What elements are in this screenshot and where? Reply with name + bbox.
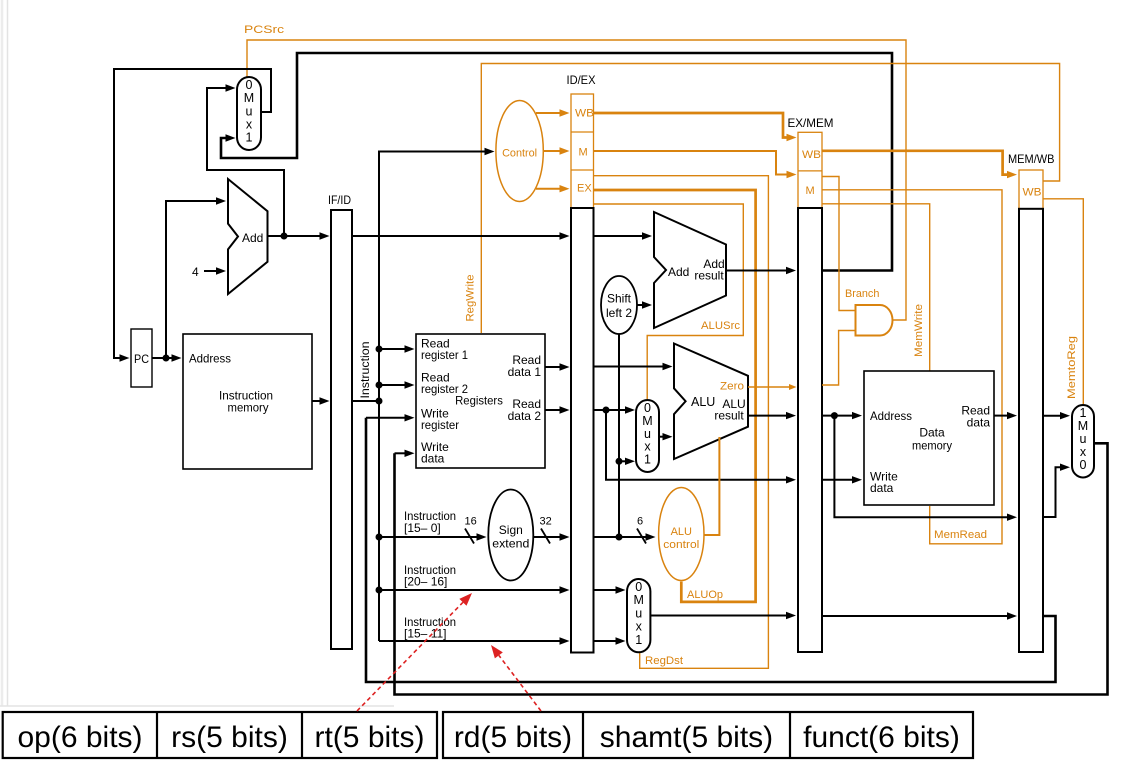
svg-text:u: u [246,104,253,118]
svg-text:memory: memory [912,439,952,453]
svg-text:rs(5 bits): rs(5 bits) [171,721,288,754]
svg-text:PC: PC [134,352,149,366]
svg-text:WB: WB [575,108,594,120]
svg-text:Instruction: Instruction [358,342,372,399]
svg-text:Address: Address [870,409,912,423]
svg-text:M: M [579,147,588,159]
svg-text:register: register [421,418,459,432]
svg-text:M: M [806,185,815,197]
svg-text:Data: Data [919,426,945,440]
svg-text:Add: Add [668,265,689,279]
svg-text:ID/EX: ID/EX [567,73,596,87]
svg-text:data: data [421,452,445,466]
svg-text:WB: WB [1023,187,1042,199]
svg-text:MemWrite: MemWrite [913,304,925,357]
svg-text:Address: Address [189,352,231,366]
svg-text:IF/ID: IF/ID [328,193,351,207]
svg-text:register 1: register 1 [421,348,468,362]
svg-text:1: 1 [246,131,253,145]
svg-text:data 2: data 2 [508,409,542,423]
svg-text:1: 1 [1080,406,1087,420]
svg-text:WB: WB [802,149,821,161]
svg-text:Control: Control [502,148,537,160]
svg-text:Branch: Branch [845,288,879,300]
svg-text:MEM/WB: MEM/WB [1008,152,1055,166]
svg-text:[20– 16]: [20– 16] [404,575,447,589]
svg-text:M: M [1078,419,1088,433]
svg-text:rt(5 bits): rt(5 bits) [314,721,424,754]
svg-text:funct(6 bits): funct(6 bits) [803,721,960,754]
svg-text:control: control [663,539,699,551]
svg-text:4: 4 [192,265,199,279]
svg-text:MemRead: MemRead [934,529,987,541]
svg-text:ALUOp: ALUOp [687,589,723,601]
svg-text:EX/MEM: EX/MEM [788,116,834,130]
svg-text:[15– 11]: [15– 11] [404,627,446,641]
svg-text:ALUSrc: ALUSrc [701,320,741,332]
svg-text:ALU: ALU [691,395,715,409]
svg-text:result: result [714,409,744,423]
svg-text:data 1: data 1 [508,365,542,379]
svg-text:u: u [635,606,642,620]
svg-text:1: 1 [644,453,651,467]
svg-text:32: 32 [540,516,552,528]
svg-text:M: M [244,91,254,105]
svg-text:left 2: left 2 [606,306,632,320]
svg-text:6: 6 [637,516,643,528]
svg-text:rd(5 bits): rd(5 bits) [454,721,572,754]
svg-text:data: data [967,416,991,430]
svg-text:M: M [633,593,643,607]
svg-text:[15– 0]: [15– 0] [404,521,441,535]
svg-text:0: 0 [1080,458,1087,472]
svg-text:op(6 bits): op(6 bits) [17,721,142,754]
svg-text:Add: Add [242,231,263,245]
svg-text:shamt(5 bits): shamt(5 bits) [600,721,773,754]
svg-text:RegDst: RegDst [645,655,683,667]
svg-text:0: 0 [635,580,642,594]
svg-text:data: data [870,481,894,495]
svg-text:Shift: Shift [607,292,632,306]
svg-text:u: u [1080,432,1087,446]
svg-text:ALU: ALU [671,526,692,538]
svg-text:Sign: Sign [499,523,523,537]
svg-text:16: 16 [465,516,477,528]
svg-text:x: x [246,117,253,131]
svg-text:Zero: Zero [720,381,744,393]
svg-text:PCSrc: PCSrc [244,24,285,36]
svg-text:RegWrite: RegWrite [465,275,477,322]
svg-text:MemtoReg: MemtoReg [1066,336,1078,399]
svg-text:extend: extend [492,537,529,551]
svg-text:x: x [1080,445,1087,459]
svg-text:Registers: Registers [455,394,503,408]
svg-text:result: result [694,269,724,283]
svg-text:1: 1 [635,633,642,647]
svg-text:0: 0 [246,78,253,92]
svg-text:x: x [636,620,643,634]
svg-text:EX: EX [577,183,592,195]
svg-text:memory: memory [228,401,269,415]
